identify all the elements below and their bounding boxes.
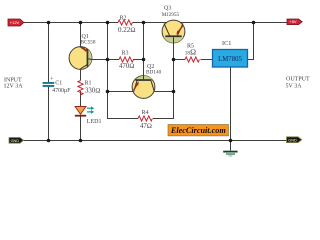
input terminal +12V <box>8 19 24 26</box>
svg-text:R4: R4 <box>142 110 149 116</box>
svg-text:OUTPUT: OUTPUT <box>286 76 310 82</box>
resistor R3 470 ohm <box>119 57 133 62</box>
svg-text:R1: R1 <box>85 80 92 86</box>
node dot Q3 base/R5 <box>172 58 176 62</box>
wire: top rail from input to R2 left <box>24 22 119 24</box>
ground terminal right <box>287 137 302 143</box>
node dot R3/Q1 base <box>106 58 110 62</box>
wire: IC1 ground lead <box>230 67 232 141</box>
svg-text:LED1: LED1 <box>87 119 102 125</box>
wire: R4 right to x=173.5 vertical riser <box>153 43 174 119</box>
node dot top rail x=144 <box>142 21 146 25</box>
svg-text:12V 3A: 12V 3A <box>4 83 24 89</box>
svg-text:BD140: BD140 <box>146 70 162 76</box>
wire: R3 left lead <box>108 59 120 61</box>
resistor R5 18 ohm <box>185 57 199 62</box>
wire: R1 to LED1 <box>80 91 82 107</box>
wire: IC1 output to top rail <box>248 23 254 60</box>
wire: input-node vertical rail x=108 <box>108 23 139 119</box>
IC1 LM7805 regulator <box>213 50 248 68</box>
svg-text:GND: GND <box>288 138 297 142</box>
wire: Q1 collector to R1 <box>80 69 82 81</box>
wire: Q1 emitter vertical <box>80 23 82 48</box>
node dot R3/Q2 base <box>142 58 146 62</box>
LED1 <box>75 106 94 116</box>
wire: Q1 base to node rail <box>91 59 108 61</box>
capacitor C1 4700uF <box>43 82 55 84</box>
svg-text:5V 3A: 5V 3A <box>286 84 303 90</box>
ElecCircuit.com logo <box>168 125 229 136</box>
svg-text:0.22Ω: 0.22Ω <box>118 26 136 34</box>
svg-text:330Ω: 330Ω <box>85 88 100 95</box>
node dot top rail IC out <box>252 21 256 25</box>
svg-text:LM7805: LM7805 <box>218 56 242 63</box>
node dot top rail x=108 <box>106 21 110 25</box>
wire: C1 branch vertical <box>48 23 50 83</box>
svg-text:47Ω: 47Ω <box>140 123 152 130</box>
ground symbol below IC1 <box>223 141 237 156</box>
wire: R5 left lead <box>174 59 186 61</box>
wire: LED1 to ground rail <box>80 117 82 141</box>
svg-text:4700µF: 4700µF <box>52 88 71 94</box>
svg-text:+5V: +5V <box>289 19 297 24</box>
ground terminal left <box>9 138 24 144</box>
wire: R3 right lead to node x=144 <box>133 59 144 61</box>
node dot Q2 right lead <box>172 90 176 94</box>
transistor Q2 BD140 <box>132 76 155 99</box>
node dot ground rail LED <box>79 139 83 143</box>
wire: bottom ground rail <box>23 140 287 142</box>
node dot ground rail C1 <box>47 139 51 143</box>
output terminal +5V <box>287 19 302 25</box>
svg-text:MJ2955: MJ2955 <box>162 12 180 18</box>
svg-text:C1: C1 <box>55 81 62 87</box>
node dot ground rail IC <box>229 139 233 143</box>
resistor R1 330 ohm (vertical) <box>78 81 83 95</box>
resistor R2 0.22 ohm <box>118 20 132 25</box>
svg-text:IC1: IC1 <box>222 40 231 47</box>
wire: Q2 left lead <box>108 91 135 93</box>
transistor Q1 BC558 <box>69 47 92 70</box>
svg-text:R2: R2 <box>120 15 127 21</box>
wire: top rail from R2 right to output <box>133 22 288 24</box>
resistor R4 47 ohm <box>138 116 152 121</box>
svg-text:R3: R3 <box>122 50 129 56</box>
wire: R5 right lead to IC1 input <box>201 59 213 61</box>
node dot Q2 left lead <box>106 90 110 94</box>
svg-text:GND: GND <box>11 139 20 143</box>
svg-text:+12V: +12V <box>10 20 20 25</box>
wire: R2-right node vertical down to Q2 base <box>143 23 145 77</box>
node dot top rail C1 <box>47 21 51 25</box>
node dot top rail Q1 <box>79 21 83 25</box>
svg-text:ElecCircuit.com: ElecCircuit.com <box>170 126 226 135</box>
transistor Q3 MJ2955 <box>162 20 185 43</box>
svg-text:Q3: Q3 <box>164 5 171 11</box>
svg-text:BC558: BC558 <box>81 39 96 45</box>
wire: Q2 right lead <box>155 91 174 93</box>
svg-text:470Ω: 470Ω <box>119 63 134 70</box>
